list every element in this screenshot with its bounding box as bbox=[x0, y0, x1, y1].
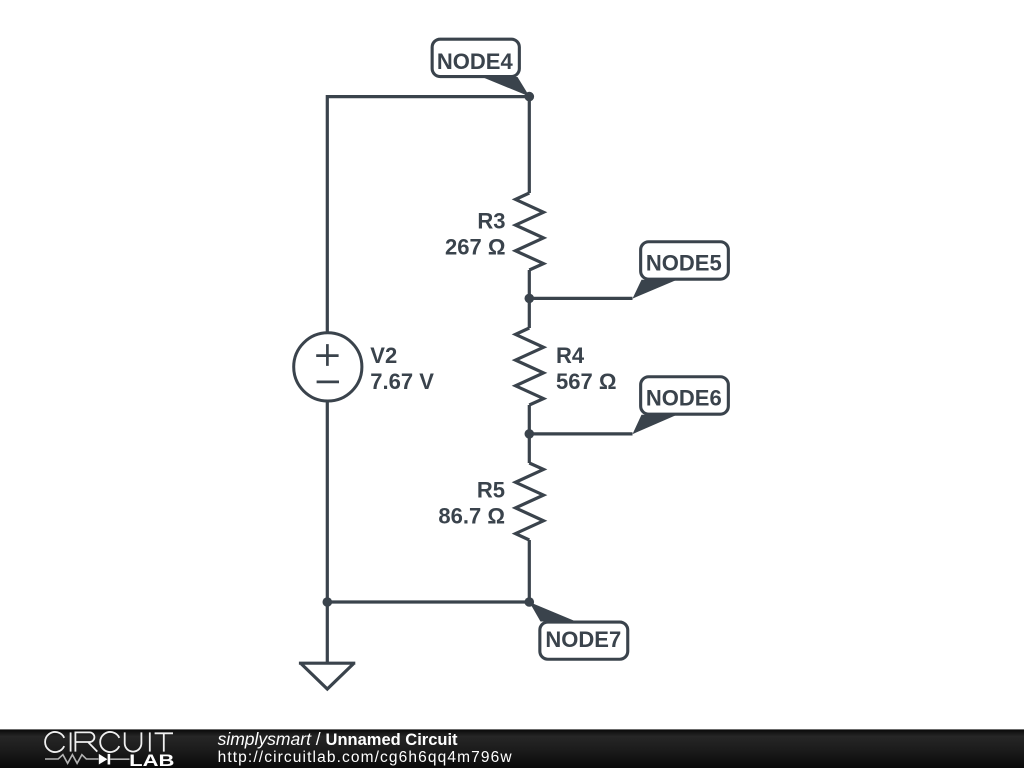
svg-text:NODE7: NODE7 bbox=[545, 627, 621, 652]
svg-text:7.67 V: 7.67 V bbox=[370, 369, 434, 394]
svg-text:R4: R4 bbox=[556, 343, 585, 368]
svg-text:http://circuitlab.com/cg6h6qq4: http://circuitlab.com/cg6h6qq4m796w bbox=[218, 749, 513, 766]
svg-text:NODE4: NODE4 bbox=[437, 49, 514, 74]
svg-text:simplysmart / Unnamed Circuit: simplysmart / Unnamed Circuit bbox=[218, 729, 458, 749]
svg-text:86.7 Ω: 86.7 Ω bbox=[438, 504, 505, 529]
svg-text:R3: R3 bbox=[477, 209, 505, 234]
svg-text:NODE6: NODE6 bbox=[646, 386, 722, 411]
svg-text:NODE5: NODE5 bbox=[646, 250, 722, 275]
svg-text:LAB: LAB bbox=[129, 752, 174, 768]
svg-text:R5: R5 bbox=[477, 478, 505, 503]
svg-text:267 Ω: 267 Ω bbox=[445, 235, 505, 260]
svg-text:567 Ω: 567 Ω bbox=[556, 369, 616, 394]
svg-text:V2: V2 bbox=[370, 343, 397, 368]
